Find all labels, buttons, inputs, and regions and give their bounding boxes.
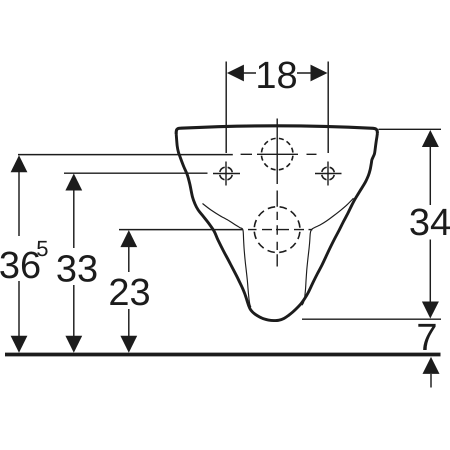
dim 23: bottom arrow <box>120 336 137 353</box>
dim 36.5: top arrow <box>11 155 28 172</box>
dim 33: top arrow <box>65 174 82 191</box>
dim 23: extension line to outlet center <box>119 229 242 231</box>
dim 34: top arrow <box>422 130 439 147</box>
outlet horizontal centerline dashes <box>248 229 313 231</box>
dim 18: right extension line <box>327 62 329 154</box>
svg-text:34: 34 <box>409 202 450 244</box>
dim 33: bottom arrow <box>65 336 82 353</box>
svg-text:5: 5 <box>36 236 48 261</box>
inner contour thin line left <box>203 204 251 308</box>
svg-text:23: 23 <box>108 272 150 314</box>
dim 34: top extension line <box>379 128 442 130</box>
dim 36.5: extension line to supply center <box>18 154 233 156</box>
svg-text:18: 18 <box>255 55 297 97</box>
inner contour thin line right <box>302 198 354 305</box>
supply hole dashed circle <box>261 138 293 170</box>
svg-text:36: 36 <box>0 245 41 287</box>
supply hole horizontal centerline dashes <box>241 153 317 155</box>
dim 18: right arrow <box>311 65 328 82</box>
dim 33: extension line to fixing holes <box>64 172 208 174</box>
right fixing hole <box>322 167 335 180</box>
floor line <box>5 353 441 357</box>
toilet top edge <box>176 126 377 134</box>
vertical centerline (chain) <box>276 119 278 267</box>
dim 23: vertical line <box>128 247 130 337</box>
dim 7: bottom arrow below floor with tail <box>423 357 440 374</box>
dim 18: left extension line <box>225 62 227 154</box>
dim 23: top arrow <box>120 230 137 247</box>
dim 34: vertical line <box>429 147 431 302</box>
dim 36.5: bottom arrow <box>11 336 28 353</box>
outlet dashed circle <box>254 207 300 253</box>
toilet outer outline <box>176 134 377 321</box>
svg-text:7: 7 <box>416 317 437 359</box>
dim 36.5: vertical line <box>18 172 20 336</box>
left fixing hole <box>220 167 233 180</box>
dim 18: left arrow <box>227 65 244 82</box>
dim 33: vertical line <box>73 190 75 336</box>
dim 34: bottom arrow <box>422 302 439 319</box>
dim 18: dimension line segments <box>243 72 312 74</box>
svg-text:33: 33 <box>56 249 98 291</box>
bowl bottom extension line <box>302 318 441 320</box>
